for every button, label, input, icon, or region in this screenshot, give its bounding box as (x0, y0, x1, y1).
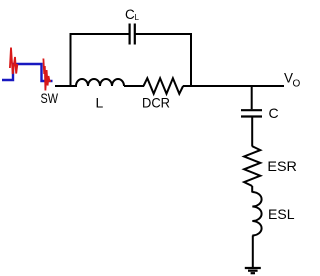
waveform ringing rising edge (red) (10, 48, 18, 75)
svg-text:SW: SW (41, 91, 59, 106)
capacitor C (241, 109, 262, 111)
svg-text:ESR: ESR (267, 158, 297, 174)
wire: SW node to inductor (55, 85, 77, 87)
wire: inductor to DCR (124, 85, 144, 87)
inductor L (76, 79, 124, 86)
inductor ESL (252, 192, 261, 236)
feedthrough loop left wire (70, 33, 72, 87)
svg-text:L: L (135, 13, 140, 22)
wire: C to ESR (251, 118, 253, 147)
svg-text:ESL: ESL (268, 206, 295, 222)
wire: DCR to Vo node (183, 85, 284, 87)
wire: Vo node branch down to C (251, 85, 253, 109)
loop top wire right segment (136, 33, 193, 35)
svg-text:O: O (293, 78, 301, 89)
resistor DCR (144, 78, 184, 94)
waveform SW square wave (blue) (2, 64, 53, 81)
loop top wire left segment (70, 33, 130, 35)
svg-text:L: L (96, 95, 104, 111)
wire: ESL to ground (252, 236, 254, 269)
loop right wire (190, 33, 192, 87)
waveform ringing falling edge (red) (43, 59, 51, 91)
capacitor CL (129, 24, 131, 45)
resistor ESR (244, 146, 260, 186)
wire: ESR to ESL (251, 186, 253, 193)
svg-text:C: C (269, 105, 279, 121)
svg-text:DCR: DCR (142, 95, 170, 111)
svg-text:C: C (125, 7, 135, 22)
ground (245, 267, 261, 269)
